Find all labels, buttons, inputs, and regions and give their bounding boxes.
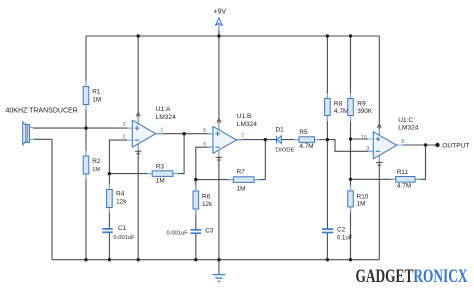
- wire U1:C V+ supply: [378, 36, 380, 135]
- svg-text:U1:A: U1:A: [156, 106, 171, 113]
- svg-text:R11: R11: [397, 169, 409, 176]
- resistor R4: [107, 184, 128, 213]
- svg-text:C2: C2: [337, 226, 346, 233]
- capacitor C1: [101, 225, 135, 241]
- node bottom rail C3: [194, 258, 197, 261]
- svg-text:1M: 1M: [156, 178, 165, 185]
- svg-text:7: 7: [241, 134, 244, 140]
- wire R10 node to R11: [351, 178, 396, 180]
- svg-text:LM324: LM324: [237, 121, 257, 128]
- wire R3 right to U1:A output: [173, 134, 184, 174]
- wire transducer bottom lead: [33, 138, 52, 140]
- wire U1:A V- to ground rail: [137, 144, 139, 260]
- wire left vertical: [85, 36, 87, 260]
- svg-text:R4: R4: [116, 190, 125, 197]
- node top rail R9: [349, 34, 352, 37]
- svg-text:R5: R5: [299, 129, 308, 136]
- svg-text:390K: 390K: [357, 108, 373, 115]
- node R10 R11: [349, 178, 352, 181]
- svg-text:R6: R6: [202, 193, 211, 200]
- svg-text:R3: R3: [156, 163, 165, 170]
- wire top +9V rail: [86, 35, 379, 37]
- svg-text:D1: D1: [276, 127, 285, 134]
- svg-text:4.7M: 4.7M: [334, 108, 349, 115]
- node top rail R8: [326, 34, 329, 37]
- wire R9 R10 vertical: [350, 36, 352, 260]
- svg-text:0.001uF: 0.001uF: [167, 230, 189, 236]
- svg-text:C3: C3: [205, 227, 214, 234]
- wire U1:B V- to ground rail: [218, 150, 220, 260]
- wire D1 to R5: [281, 139, 299, 141]
- node bottom rail C2: [326, 258, 329, 261]
- node U1:B output feedback: [264, 138, 267, 141]
- node B inverting U1:A: [108, 172, 111, 175]
- svg-text:1M: 1M: [92, 167, 100, 173]
- resistor R9: [348, 93, 373, 121]
- svg-text:U1:C: U1:C: [398, 117, 413, 124]
- svg-text:9: 9: [366, 146, 369, 152]
- wire transducer lower drop: [51, 139, 53, 259]
- svg-text:LM324: LM324: [398, 125, 418, 132]
- wire R8 C2 vertical: [326, 36, 328, 260]
- wire node A to U1:A pin3: [86, 127, 132, 129]
- svg-text:12k: 12k: [202, 201, 213, 208]
- wire node C horizontal to R7: [196, 179, 234, 181]
- node junction dots: [84, 34, 439, 261]
- resistor R6: [193, 186, 213, 215]
- wire U1:C V- to ground rail: [378, 155, 380, 259]
- svg-text:R7: R7: [237, 168, 246, 175]
- svg-text:1M: 1M: [92, 96, 101, 103]
- svg-text:1M: 1M: [237, 185, 246, 192]
- wire reference tap to U1:C pin10: [351, 138, 374, 140]
- op-amp U1:C: [361, 117, 419, 165]
- node output feedback: [424, 143, 427, 146]
- svg-text:6: 6: [203, 142, 206, 148]
- capacitor C2: [321, 226, 353, 241]
- wire U1:B V+ supply: [218, 36, 220, 130]
- op-amp U1:A: [123, 106, 176, 154]
- wire +9V stem: [218, 29, 220, 36]
- node A transducer bias: [84, 126, 87, 129]
- svg-text:2: 2: [123, 135, 126, 141]
- svg-text:4.7M: 4.7M: [397, 182, 411, 189]
- svg-text:0.1uF: 0.1uF: [337, 236, 353, 242]
- svg-text:0.001uF: 0.001uF: [113, 235, 135, 241]
- power flag +9V: [214, 9, 227, 32]
- svg-text:R8: R8: [334, 101, 343, 108]
- svg-text:DIODE: DIODE: [276, 148, 294, 154]
- svg-text:12k: 12k: [116, 198, 127, 205]
- resistor R11: [391, 169, 420, 189]
- wire R11 right to output node: [415, 145, 426, 179]
- capacitor C3: [167, 227, 214, 236]
- wire U1:A V+ supply: [137, 36, 139, 124]
- wire bottom ground rail: [52, 259, 379, 261]
- wire R7 right to U1:B output: [255, 140, 266, 180]
- svg-text:1M: 1M: [357, 200, 366, 207]
- wire U1:A pin2 elbow: [109, 140, 132, 174]
- wire ground stem: [218, 260, 220, 274]
- node bottom rail U1:A V-: [137, 258, 140, 261]
- node bottom rail C1: [108, 258, 111, 261]
- svg-text:5: 5: [203, 128, 206, 134]
- wire R4 to C1 chain: [108, 174, 110, 260]
- node top rail +9V / U1:B V+: [217, 34, 220, 37]
- svg-text:3: 3: [123, 122, 126, 128]
- wire R5 to node P: [315, 139, 328, 141]
- resistor R1: [83, 81, 101, 110]
- transducer LS1 40KHZ: [6, 108, 78, 145]
- svg-text:U1:B: U1:B: [237, 113, 252, 120]
- wire U1:B output to D1: [236, 139, 276, 141]
- wire node P elbow to U1:C pin9: [327, 140, 373, 152]
- node top rail U1:A V+: [137, 34, 140, 37]
- resistor R3: [147, 163, 178, 184]
- node P detector: [326, 138, 329, 141]
- resistor R8: [325, 93, 349, 121]
- node bottom rail R2: [84, 258, 87, 261]
- op-amp U1:B: [203, 113, 257, 160]
- node output terminal: [435, 143, 439, 147]
- wire R6 to C3 chain: [195, 180, 197, 260]
- svg-text:4.7M: 4.7M: [299, 143, 313, 150]
- wire U1:C output to terminal: [397, 144, 438, 146]
- svg-text:40KHZ TRANSDUCER: 40KHZ TRANSDUCER: [6, 108, 78, 115]
- wire node B horizontal to R3: [109, 173, 152, 175]
- node bottom rail U1:B V- / ground: [217, 258, 220, 261]
- svg-text:R1: R1: [92, 88, 101, 95]
- svg-text:GADGETRONICX: GADGETRONICX: [356, 267, 468, 287]
- svg-text:8: 8: [401, 139, 404, 145]
- svg-text:OUTPUT: OUTPUT: [442, 143, 469, 150]
- node C inverting U1:B: [194, 178, 197, 181]
- resistor R2: [83, 151, 101, 180]
- svg-text:R10: R10: [357, 193, 369, 200]
- svg-text:+9V: +9V: [214, 9, 227, 16]
- wire transducer top lead: [33, 127, 86, 129]
- svg-text:10: 10: [361, 135, 367, 141]
- resistor R7: [228, 168, 259, 192]
- svg-text:LM324: LM324: [156, 114, 176, 121]
- wire U1:A output to U1:B pin5: [156, 133, 213, 135]
- svg-text:R2: R2: [92, 158, 101, 165]
- node reference tap: [349, 137, 352, 140]
- resistor R5: [294, 129, 319, 150]
- wire U1:B pin6 elbow: [196, 147, 213, 179]
- diode D1: [276, 127, 295, 154]
- node bottom rail R10: [349, 258, 352, 261]
- svg-text:C1: C1: [118, 225, 127, 232]
- svg-text:R9: R9: [357, 101, 366, 108]
- ground: [213, 275, 226, 282]
- resistor R10: [348, 185, 369, 212]
- node U1:A output feedback: [182, 132, 185, 135]
- svg-text:1: 1: [160, 127, 163, 133]
